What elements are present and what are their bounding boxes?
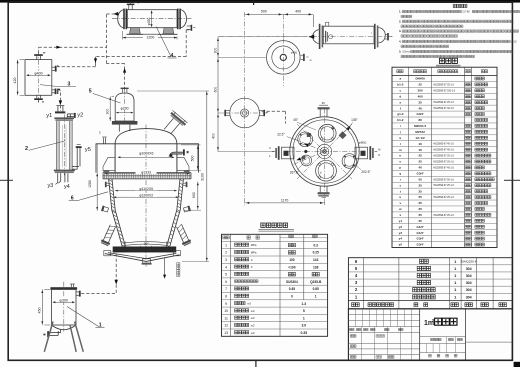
svg-text:11: 11 [224, 316, 228, 320]
svg-text:HG20593-97 40-1.6: HG20593-97 40-1.6 [433, 108, 454, 110]
svg-text:G3/4': G3/4' [417, 237, 425, 241]
svg-text:450: 450 [38, 308, 42, 314]
svg-text:φ1000X6: φ1000X6 [139, 152, 153, 156]
svg-text:HG20593-97 40-1.6: HG20593-97 40-1.6 [433, 150, 454, 152]
svg-text:DN400: DN400 [415, 77, 425, 81]
svg-text:1: 1 [225, 243, 227, 247]
svg-text:y3: y3 [399, 231, 403, 235]
svg-text:400: 400 [212, 133, 216, 139]
svg-text:9: 9 [225, 302, 227, 306]
svg-text:j: j [399, 130, 401, 134]
svg-text:G1 1/2: G1 1/2 [416, 136, 425, 140]
notes title ji-shu-yao-qiu [453, 4, 467, 7]
svg-text:143: 143 [313, 258, 319, 262]
main tank E6 dim phi1102X5 [116, 190, 177, 192]
svg-text:300: 300 [213, 48, 217, 54]
svg-text:SUS304: SUS304 [286, 280, 298, 284]
centering mark bottom [255, 360, 257, 367]
nozzle table title [439, 58, 457, 63]
top view nozzle diamond upper-right [339, 131, 347, 139]
svg-text:300: 300 [106, 109, 110, 115]
svg-text:f: f [400, 106, 401, 110]
separator E2 y5 pipe [72, 165, 79, 167]
condenser side view right nozzle [385, 33, 387, 35]
svg-text:100mm: 100mm [402, 51, 410, 54]
main tank E6 door bottom stub [143, 259, 151, 263]
top view nozzle lower-right [342, 154, 357, 169]
condenser E4 saddle right [163, 28, 174, 34]
main tank E6 jacket wall right [170, 179, 184, 247]
svg-text:M27X2: M27X2 [415, 130, 425, 134]
cooler E3 top nozzle [36, 56, 38, 60]
svg-text:0.25: 0.25 [313, 251, 319, 255]
separator E2 top flange [54, 117, 74, 119]
cooler E3 shell [25, 60, 52, 96]
svg-text:13: 13 [224, 331, 228, 335]
svg-text:y1: y1 [399, 219, 403, 223]
main tank E6 dim phi1200X2 [114, 196, 178, 198]
svg-text:φ1102X5: φ1102X5 [139, 187, 153, 191]
filter E1 top cap [50, 287, 77, 289]
main tank E6 door direction arrow [164, 258, 166, 276]
svg-text:304: 304 [466, 267, 472, 271]
main tank E6 side nozzle lower left [100, 223, 117, 246]
svg-text:HG20593-97 200-1.6: HG20593-97 200-1.6 [433, 90, 456, 92]
svg-text:2: 2 [225, 251, 227, 255]
svg-text:u: u [399, 195, 401, 199]
svg-text:G3/4': G3/4' [417, 112, 425, 116]
separator E2 top stub y1 [57, 106, 59, 112]
top view right nozzle [355, 147, 368, 159]
defoamer top view [230, 98, 260, 128]
svg-text:40: 40 [418, 166, 422, 170]
svg-text:4: 4 [225, 265, 227, 269]
filter E1 right nozzle [76, 291, 79, 293]
main tank E6 right support lug [177, 158, 189, 171]
condenser side view top stub [326, 22, 329, 26]
main tank top view center shaft [317, 144, 331, 158]
main tank E6 centerline [145, 125, 147, 267]
svg-text:6: 6 [225, 280, 227, 284]
svg-text:25: 25 [418, 219, 422, 223]
svg-text:A102: A102 [511, 40, 517, 43]
svg-text:10: 10 [224, 309, 228, 313]
label open-direction (kai qi fang xiang) [177, 263, 180, 277]
svg-text:7: 7 [225, 287, 227, 291]
cooler E3 centerline [38, 51, 40, 104]
svg-text:y4: y4 [64, 184, 70, 190]
condenser E4 right bottom nozzle [187, 25, 191, 27]
defoamer E5 shell [115, 93, 134, 121]
cooler E3 right lower nozzle [52, 89, 55, 91]
svg-text:304: 304 [466, 295, 472, 299]
svg-text:o: o [399, 160, 401, 164]
dim chain 300-600-400 [217, 37, 219, 152]
filter E1 bottom dish [52, 325, 77, 330]
svg-text:φ1333: φ1333 [141, 171, 151, 175]
wire filter inlet dashed [81, 293, 116, 295]
svg-text:n: n [399, 154, 401, 158]
svg-text:HG20593-97 40-1.6: HG20593-97 40-1.6 [433, 167, 454, 169]
svg-text:2: 2 [25, 146, 28, 152]
svg-text:25: 25 [418, 160, 422, 164]
svg-text:HG20593-97 25-1.6: HG20593-97 25-1.6 [433, 185, 454, 187]
svg-text:l: l [400, 142, 401, 146]
main tank E6 jacket hatch left [109, 180, 112, 182]
svg-text:m2: m2 [251, 316, 255, 320]
svg-text:4.: 4. [399, 40, 402, 44]
svg-text:200: 200 [418, 88, 423, 92]
main tank E6 sieve plate [123, 242, 169, 244]
svg-text:5: 5 [89, 89, 92, 95]
svg-text:G3/4': G3/4' [417, 243, 425, 247]
top view flow arrows [304, 142, 309, 147]
svg-text:t: t [400, 189, 401, 193]
condenser E4 top nozzle [128, 5, 130, 10]
svg-text:y3: y3 [48, 183, 54, 189]
svg-text:1.3: 1.3 [301, 302, 306, 306]
defoamer E5 dim 300 [109, 97, 111, 122]
svg-text:1: 1 [315, 294, 317, 298]
condenser side view centerline [219, 36, 392, 38]
svg-text:40: 40 [418, 142, 422, 146]
top view nozzle lower-left small [301, 155, 312, 166]
svg-text:135°: 135° [351, 118, 358, 122]
svg-text:M20X1.5: M20X1.5 [414, 124, 426, 128]
condenser end view [267, 41, 301, 75]
condenser side view right flange [374, 24, 376, 49]
svg-text:400: 400 [295, 10, 301, 14]
svg-text:8: 8 [225, 294, 227, 298]
main tank E6 body flange phi1333 [103, 173, 191, 176]
svg-text:25: 25 [418, 213, 422, 217]
svg-text:<100: <100 [288, 265, 295, 269]
svg-text:202.5°: 202.5° [361, 170, 371, 174]
svg-text:337.5°: 337.5° [290, 170, 300, 174]
svg-text:φ1200X2: φ1200X2 [139, 194, 153, 198]
svg-text:y5: y5 [85, 147, 91, 153]
char table grid [222, 234, 328, 336]
wire vapor line defoamer to condenser [124, 64, 126, 91]
condenser side view shell [323, 26, 374, 44]
svg-text:3: 3 [225, 258, 227, 262]
svg-text:4: 4 [171, 53, 174, 59]
svg-text:Q235-B: Q235-B [310, 280, 322, 284]
svg-text:1.: 1. [399, 10, 402, 14]
condenser side view left head [313, 30, 319, 44]
svg-text:304/Q235-B: 304/Q235-B [461, 260, 477, 264]
svg-text:3: 3 [68, 82, 71, 88]
svg-text:N: N [378, 154, 380, 157]
separator E2 y3 pipe [57, 173, 59, 182]
svg-text:b1-2: b1-2 [397, 83, 404, 87]
top view nozzle upper-left [298, 132, 313, 147]
svg-text:h1-2: h1-2 [397, 118, 404, 122]
main tank E6 jacket hatch right [180, 180, 183, 182]
svg-text:m2: m2 [251, 323, 255, 327]
cooler E3 dim 420 [17, 60, 19, 96]
svg-text:100: 100 [289, 258, 295, 262]
filter E1 centerline [63, 282, 65, 332]
condenser E4 item leader 4 [156, 27, 171, 57]
wire vapor line top view [262, 110, 286, 112]
svg-text:1: 1 [99, 323, 102, 329]
condenser end view centerline vert [282, 14, 284, 40]
svg-text:c: c [99, 131, 101, 135]
svg-text:G3/4': G3/4' [417, 171, 425, 175]
svg-text:HG20593-97 25-1.6: HG20593-97 25-1.6 [433, 84, 454, 86]
wire cooler vent line [38, 47, 40, 53]
condenser side view small nozzle inside [325, 31, 326, 43]
svg-text:25: 25 [418, 195, 422, 199]
svg-text:MPa: MPa [251, 250, 257, 254]
svg-text:G1/2': G1/2' [417, 231, 425, 235]
condenser E4 left nozzle arrow [114, 12, 119, 16]
svg-text:y1: y1 [46, 113, 52, 119]
title block [348, 309, 512, 360]
svg-text:25: 25 [418, 183, 422, 187]
svg-text:m3: m3 [247, 302, 251, 306]
svg-text:304: 304 [466, 288, 472, 292]
svg-text:r: r [371, 31, 372, 35]
main tank E6 jacket kink stub left [101, 205, 109, 212]
filter E1 dim 450 [41, 289, 43, 325]
svg-text:φ450: φ450 [291, 50, 298, 54]
svg-text:1200: 1200 [146, 36, 154, 40]
sheet top edge bar [0, 0, 520, 3]
svg-text:22.5°: 22.5° [277, 133, 285, 137]
separator E2 shell [57, 121, 60, 170]
svg-text:m2: m2 [251, 331, 255, 335]
char table title [261, 223, 288, 227]
main tank top view centerlines [324, 109, 326, 200]
wire condensate condenser to cooler [186, 29, 189, 31]
svg-text:5: 5 [225, 273, 227, 277]
svg-text:45°: 45° [293, 118, 299, 122]
cooler E3 item leader 3 [40, 85, 56, 87]
main tank E6 quick-open door [105, 254, 180, 262]
top view left nozzle [282, 147, 295, 159]
cooler E3 dim phi400 [27, 74, 50, 76]
condenser E4 dim phi350 [151, 11, 153, 26]
condenser E4 base line [127, 33, 178, 35]
main tank E6 shell walls [114, 144, 116, 173]
svg-text:0: 0 [291, 294, 293, 298]
svg-text:C: C [251, 258, 253, 262]
main tank E6 manhole nozzle on dome [160, 110, 188, 138]
main tank E6 jacket inlet stub right [183, 182, 186, 184]
svg-text:0.3: 0.3 [313, 243, 318, 247]
main tank E6 jacket kink stub right [183, 205, 191, 212]
svg-text:420: 420 [13, 78, 17, 84]
main tank E6 dim phi1333 [104, 173, 190, 175]
separator E2 y2 elbow [66, 114, 68, 118]
main tank E6 bottom door flange [113, 247, 177, 252]
condenser E4 shell [127, 10, 177, 28]
main tank E6 angle 30deg [140, 246, 146, 250]
condenser E4 left flange [123, 9, 125, 30]
cooler E3 bottom nozzle [36, 95, 38, 98]
svg-text:2.: 2. [399, 19, 402, 23]
main tank E6 feed nozzle a [170, 153, 183, 157]
centering mark top [253, 0, 255, 5]
svg-text:C: C [251, 265, 253, 269]
svg-text:25: 25 [418, 100, 422, 104]
svg-text:304: 304 [466, 281, 472, 285]
filter E1 item leader 1 [67, 307, 99, 327]
corner mark bottom-right [514, 362, 520, 367]
svg-text:25: 25 [418, 201, 422, 205]
svg-text:q: q [399, 171, 401, 175]
condenser side view right head [379, 28, 386, 43]
main tank E6 side nozzle lower right [175, 223, 192, 246]
defoamer centerline vertical [244, 12, 246, 206]
parts list table [348, 258, 512, 309]
svg-text:y2: y2 [399, 225, 403, 229]
main tank E6 left support lug [103, 158, 115, 171]
svg-text:φ200: φ200 [121, 106, 129, 110]
svg-text:12: 12 [224, 324, 228, 328]
svg-text:HG20593-97 50-1.6: HG20593-97 50-1.6 [433, 179, 454, 181]
top view bolt dots [331, 127, 333, 129]
svg-text:40: 40 [418, 106, 422, 110]
svg-text:50: 50 [418, 177, 422, 181]
wire discharge to filter [115, 254, 117, 281]
svg-text:90: 90 [322, 101, 325, 105]
svg-text:1: 1 [303, 316, 305, 320]
svg-text:M: M [378, 149, 380, 152]
condenser E4 right head [181, 10, 187, 28]
svg-text:600: 600 [192, 192, 196, 198]
condenser E4 left head [118, 10, 124, 28]
svg-text:3.: 3. [399, 29, 402, 33]
svg-text:m: m [399, 148, 402, 152]
dim 1170 [324, 199, 326, 205]
dim 3100 (total height) [137, 90, 209, 92]
svg-text:i: i [400, 124, 401, 128]
svg-text:g1-2: g1-2 [397, 112, 404, 116]
svg-text:30°: 30° [144, 242, 150, 246]
defoamer E5 dim phi200 [116, 112, 132, 114]
svg-text:y5: y5 [399, 243, 403, 247]
svg-text:0.85: 0.85 [313, 287, 319, 291]
svg-text:25: 25 [418, 83, 422, 87]
main tank E6 top ring line [96, 143, 199, 145]
svg-text:25: 25 [418, 154, 422, 158]
svg-text:G1/2': G1/2' [417, 225, 425, 229]
svg-text:φ350: φ350 [147, 17, 151, 25]
svg-text:304: 304 [466, 274, 472, 278]
svg-text:J17-88: J17-88 [462, 11, 470, 14]
centering mark right [504, 179, 520, 181]
separator E2 y4 pipe [64, 173, 66, 182]
svg-text:5.: 5. [399, 50, 402, 54]
svg-text:HG20593-97 40-1.6: HG20593-97 40-1.6 [433, 144, 454, 146]
svg-text:40: 40 [418, 148, 422, 152]
svg-text:φ300: φ300 [60, 298, 68, 302]
filter E1 legs [44, 322, 53, 352]
svg-text:0.35: 0.35 [300, 331, 307, 335]
svg-text:5: 5 [303, 309, 305, 313]
svg-text:600: 600 [213, 87, 217, 93]
svg-text:HG20593-97 25-1.6: HG20593-97 25-1.6 [433, 156, 454, 158]
svg-text:m2: m2 [251, 309, 255, 313]
dim 1280 (left, jacket height) [96, 173, 98, 211]
top view nozzle manhole upper [318, 124, 336, 142]
filter E1 dim phi300 [54, 301, 75, 303]
condenser E4 right flange [177, 9, 179, 30]
svg-text:φ400: φ400 [34, 71, 42, 75]
svg-text:φ80Ω: φ80Ω [359, 141, 367, 145]
dim 500-400 top chain [245, 13, 314, 15]
centering mark left [0, 179, 13, 181]
defoamer E5 bottom flange [112, 121, 137, 125]
svg-text:500: 500 [191, 156, 195, 162]
dim 400 top right corner [312, 15, 314, 27]
svg-text:HG20593-97 25-1.6: HG20593-97 25-1.6 [433, 102, 454, 104]
defoamer E5 top stub [121, 89, 123, 93]
svg-text:0.85: 0.85 [289, 287, 295, 291]
condenser E4 dim 1200 [122, 31, 124, 40]
filter E1 drain pipe [49, 332, 61, 334]
main tank top view outer shell [290, 117, 359, 186]
svg-text:HG20593-97 25-1.6: HG20593-97 25-1.6 [433, 161, 454, 163]
svg-text:MPa: MPa [251, 243, 257, 247]
dim 500 (dome to flange) [181, 144, 201, 146]
svg-text:1280: 1280 [88, 180, 92, 188]
main tank E6 jacket wall left [109, 179, 123, 247]
condenser E4 saddle left [129, 28, 140, 34]
svg-text:3100: 3100 [201, 173, 205, 181]
svg-text:500: 500 [261, 10, 267, 14]
top view top nozzle [319, 108, 321, 116]
top view nozzle lower big d [316, 160, 337, 181]
svg-text:1170: 1170 [281, 198, 289, 202]
main tank E6 dim phi1000X6 [118, 156, 174, 158]
filter E1 top stub [70, 284, 72, 287]
svg-text:w: w [310, 59, 312, 62]
svg-text:138: 138 [313, 265, 319, 269]
svg-text:80: 80 [418, 118, 422, 122]
svg-text:HG20593-97 25-1.6: HG20593-97 25-1.6 [433, 197, 454, 199]
defoamer E5 neck [119, 125, 130, 131]
top view bottom nozzle [319, 186, 321, 194]
svg-text:25: 25 [418, 207, 422, 211]
main tank E6 jacket inlet stub left [107, 182, 110, 184]
separator E2 bottom flange [54, 170, 75, 172]
svg-text:y2: y2 [77, 113, 83, 119]
wire cooler to separator [59, 93, 61, 102]
main tank E6 dome [115, 129, 177, 144]
svg-text:3.0: 3.0 [301, 324, 306, 328]
svg-text:400: 400 [418, 94, 423, 98]
svg-text:y4: y4 [399, 237, 403, 241]
svg-text:25: 25 [418, 189, 422, 193]
filter E1 body [52, 289, 77, 325]
svg-text:d: d [399, 94, 401, 98]
svg-text:HG20593-97 25-1.6: HG20593-97 25-1.6 [433, 215, 454, 217]
nozzle table grid and rows [392, 67, 497, 247]
cooler E3 right upper nozzle [52, 66, 55, 68]
condenser side view left flange [319, 24, 321, 49]
svg-text:p: p [399, 166, 401, 170]
dim 600 (cone upper) [183, 209, 201, 211]
